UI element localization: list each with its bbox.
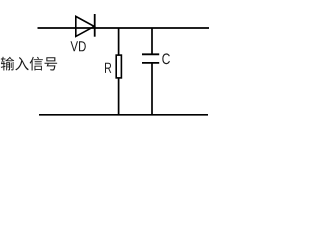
node: input signal label 输入信号 (1, 57, 57, 71)
resistor R: body (116, 55, 121, 78)
wire: capacitor branch upper stub (151, 28, 153, 54)
wire: bottom rail (39, 114, 208, 116)
label R (105, 63, 111, 73)
label C (162, 53, 170, 64)
label VD (71, 41, 86, 51)
wire: capacitor branch lower stub (151, 63, 153, 114)
capacitor C: bottom plate (142, 62, 159, 64)
wire: top rail (38, 27, 210, 29)
wire: resistor branch lower stub (118, 78, 120, 115)
diode VD: anode triangle (76, 16, 94, 36)
diode VD: cathode bar (94, 14, 96, 37)
capacitor C: top plate (142, 53, 159, 55)
wire: resistor branch upper stub (118, 28, 120, 55)
